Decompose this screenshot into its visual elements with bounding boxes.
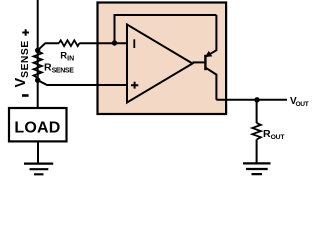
wire: VOUT node down to ROUT [256, 100, 258, 123]
ground (LOAD) [24, 164, 53, 175]
wire: noninverting input wire [38, 80, 127, 85]
wire: left vertical load/sense wire [37, 0, 39, 108]
VSENSE plus mark [22, 29, 29, 36]
resistor RSENSE [34, 51, 42, 78]
LOAD box [9, 108, 67, 141]
svg-text:ROUT: ROUT [263, 128, 285, 141]
wire: RIN input wire to inverting input [38, 43, 59, 50]
resistor ROUT [252, 123, 261, 140]
transistor Q1 (PNP) base wire [193, 61, 205, 63]
node: bottom junction dot [35, 78, 40, 83]
svg-text:RSENSE: RSENSE [44, 61, 74, 74]
svg-text:RIN: RIN [60, 50, 74, 62]
resistor RIN [59, 40, 79, 46]
node: top junction dot [35, 48, 40, 53]
wire: output wire to VOUT [216, 99, 287, 101]
wire: LOAD to ground [37, 142, 39, 163]
wire: RIN to op-amp [79, 42, 127, 44]
VSENSE minus mark [22, 94, 29, 97]
transistor Q1 emitter [206, 15, 217, 57]
wire: ROUT to ground [256, 140, 258, 164]
amplifier IC box (shaded) [98, 3, 227, 115]
op-amp noninverting input mark (+) [131, 82, 138, 89]
transistor Q1 base bar [204, 55, 206, 70]
svg-text:VSENSE: VSENSE [13, 40, 31, 87]
node: feedback junction dot [112, 40, 117, 45]
svg-text:LOAD: LOAD [14, 120, 60, 137]
transistor Q1 collector [206, 68, 217, 100]
ground (ROUT) [243, 163, 271, 174]
op-amp inverting input mark [133, 39, 135, 48]
op-amp U1 [127, 25, 193, 103]
svg-text:VOUT: VOUT [290, 96, 309, 108]
wire: feedback loop from inverting node over top to emitter [115, 15, 217, 43]
node: output junction dot [254, 97, 259, 102]
transistor Q1 emitter arrow [205, 51, 212, 57]
